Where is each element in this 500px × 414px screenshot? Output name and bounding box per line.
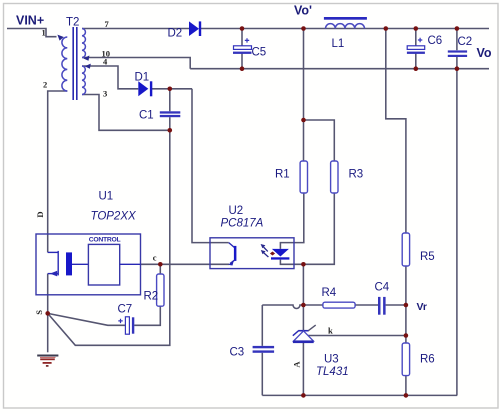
resistor R2 <box>157 274 164 306</box>
node ref <box>404 333 409 338</box>
capacitor C2 <box>448 50 467 57</box>
node R6-ground <box>404 393 409 398</box>
node D1-C1 <box>168 87 173 92</box>
wire T2 pin3 to C1 bottom <box>82 95 170 131</box>
capacitor C3 <box>253 346 275 353</box>
wire C1 top lead <box>169 89 171 112</box>
wire R3 bottom to LED cathode node <box>303 193 334 264</box>
wire C7 right plate to R2 bottom <box>134 306 160 325</box>
node Vr <box>404 303 409 308</box>
U1 control out wire <box>120 263 141 265</box>
wire secondary ground bottom rail <box>262 394 457 396</box>
svg-text:D2: D2 <box>168 28 183 40</box>
node C5 top <box>240 26 245 31</box>
wire R5 bottom to R6 top through Vr <box>405 266 407 343</box>
transformer T2 <box>62 29 86 95</box>
wire T2 pin2 to U1 drain rail <box>48 91 68 252</box>
U3 TL431 <box>293 325 316 343</box>
svg-text:C2: C2 <box>458 36 473 48</box>
wire C4 to Vr node <box>386 304 406 306</box>
wire R1 top lead <box>303 120 305 161</box>
capacitor C1 <box>160 111 181 117</box>
wire TL431 anode lead <box>302 343 304 395</box>
diode D2 <box>189 21 201 36</box>
wire T2 pin4 to D1 anode <box>82 66 138 89</box>
svg-text:C1: C1 <box>139 110 154 122</box>
wire K node to R4 <box>303 304 323 306</box>
node C6 top <box>414 26 419 31</box>
wire T2 pin10 to lower secondary rail <box>82 58 190 69</box>
svg-text:R1: R1 <box>275 169 290 181</box>
svg-text:D: D <box>35 211 45 217</box>
node anode-ground <box>301 393 306 398</box>
svg-text:k: k <box>328 326 333 336</box>
wire LED cathode to node <box>280 260 303 265</box>
node K <box>301 303 306 308</box>
opto U2 box <box>210 238 294 269</box>
wire Vo' rail down to R1/R3 node <box>303 29 305 121</box>
capacitor C4 <box>378 297 386 315</box>
wire R4 to C4 <box>355 304 378 306</box>
resistor R4 <box>323 302 355 308</box>
svg-text:R2: R2 <box>144 291 159 303</box>
svg-text:c: c <box>153 253 157 263</box>
wire C3 leads <box>261 305 263 395</box>
wire R6 bottom to ground rail <box>405 376 407 396</box>
svg-text:2: 2 <box>43 80 47 90</box>
svg-text:D1: D1 <box>135 72 150 84</box>
wire C5 leads <box>241 29 243 69</box>
T2 secondary winding bottom <box>82 66 86 95</box>
T2 primary winding <box>62 37 67 91</box>
T2 secondary winding top <box>82 29 85 58</box>
svg-text:R3: R3 <box>349 169 364 181</box>
node C2 bottom <box>455 66 460 71</box>
svg-text:C3: C3 <box>230 347 245 359</box>
node LED cathode <box>301 262 306 267</box>
svg-text:A: A <box>292 361 302 368</box>
svg-text:TOP2XX: TOP2XX <box>91 211 137 223</box>
inductor L1 <box>324 17 367 29</box>
svg-text:U3: U3 <box>324 354 339 366</box>
svg-text:R6: R6 <box>420 354 435 366</box>
T2 pin10 phase arrow <box>83 56 89 61</box>
U1 CONTROL box <box>88 244 119 285</box>
wire TL431 ref to divider <box>308 335 406 337</box>
wire TL431 cathode lead <box>302 305 304 331</box>
wire R1 bottom to LED anode <box>280 193 303 249</box>
wire U1 source to ground <box>47 274 49 353</box>
T2 pin1 phase arrow <box>57 35 63 41</box>
resistor R1 <box>300 161 307 193</box>
op U1 TOP2XX box <box>36 234 141 295</box>
wire node to R3 top <box>304 120 335 161</box>
svg-text:U2: U2 <box>229 205 244 217</box>
wire C1 bottom lead <box>169 117 171 130</box>
wire D1 bias rail down to opto collector <box>192 89 229 243</box>
svg-text:L1: L1 <box>332 38 345 50</box>
U2 phototransistor <box>228 243 236 266</box>
U1 MOSFET source arrow <box>50 271 57 277</box>
svg-text:C6: C6 <box>428 35 443 47</box>
svg-text:C7: C7 <box>118 304 133 316</box>
node R1-R3 <box>301 118 306 123</box>
capacitor C5 <box>233 38 252 54</box>
resistor R5 <box>402 233 409 266</box>
svg-text:C4: C4 <box>375 282 390 294</box>
svg-text:Vo': Vo' <box>294 4 312 18</box>
capacitor C6 <box>407 38 425 54</box>
wire node c to opto emitter <box>141 263 230 265</box>
diode D1 <box>138 81 152 96</box>
T2 core <box>73 27 77 100</box>
svg-text:VIN+: VIN+ <box>16 14 44 28</box>
capacitor C7 <box>118 317 134 334</box>
U1 gate wire <box>72 263 88 265</box>
node C1-pin3 <box>168 128 173 133</box>
U2 light arrows <box>261 244 269 257</box>
wire LED cathode node down to K node <box>302 264 304 305</box>
U2 LED <box>271 249 289 260</box>
svg-text:T2: T2 <box>66 17 79 29</box>
node c <box>158 262 163 267</box>
wire bias return rail down to source slant <box>48 130 170 345</box>
svg-text:U1: U1 <box>99 191 114 203</box>
svg-text:7: 7 <box>105 19 110 29</box>
wire C2 top lead <box>456 29 458 51</box>
wire Vo'' jog down to R5 <box>386 29 406 234</box>
svg-text:Vo: Vo <box>477 46 492 60</box>
resistor R3 <box>331 161 338 193</box>
resistor R6 <box>402 343 409 376</box>
svg-text:C5: C5 <box>252 47 267 59</box>
svg-text:Vr: Vr <box>417 301 428 313</box>
wire top output rail D2 to right edge <box>201 28 489 30</box>
node L1 out <box>384 26 389 31</box>
svg-text:1: 1 <box>42 28 46 38</box>
svg-text:TL431: TL431 <box>316 366 349 378</box>
wire C6 leads <box>415 29 417 69</box>
wire D1 cathode to bias node <box>151 88 193 90</box>
svg-text:R4: R4 <box>322 287 337 299</box>
wire C2 bottom lead and right rail to ground <box>456 57 458 395</box>
svg-text:R5: R5 <box>420 251 435 263</box>
wire T2 pin7 to D2 anode <box>82 28 189 30</box>
node S <box>45 311 50 316</box>
node C6 bottom <box>414 66 419 71</box>
U1 gate plate <box>66 252 72 275</box>
svg-text:S: S <box>34 310 44 315</box>
node C2 top <box>455 26 460 31</box>
U1 internal MOSFET <box>48 251 59 276</box>
wire S pin slant to C7 left plate <box>48 313 126 325</box>
U2 red diamond <box>270 252 275 256</box>
wire VIN+ feed to T2 pin1 <box>7 29 57 37</box>
ground symbol primary <box>37 356 58 366</box>
svg-text:CONTROL: CONTROL <box>89 237 121 244</box>
node C5 bottom <box>240 66 245 71</box>
T2 pin4 phase arrow <box>85 64 91 69</box>
wire C3 top to K node with hop <box>262 305 303 309</box>
wire R2 top to node c <box>159 264 161 274</box>
svg-text:3: 3 <box>103 89 107 99</box>
wire lower secondary return rail <box>190 68 489 70</box>
svg-text:PC817A: PC817A <box>221 218 264 230</box>
node Vo' <box>301 26 306 31</box>
